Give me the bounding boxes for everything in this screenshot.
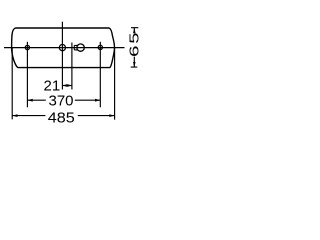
svg-text:5: 5 bbox=[127, 33, 142, 44]
svg-text:6: 6 bbox=[127, 45, 142, 57]
svg-text:370: 370 bbox=[48, 93, 73, 110]
svg-text:485: 485 bbox=[48, 110, 75, 126]
